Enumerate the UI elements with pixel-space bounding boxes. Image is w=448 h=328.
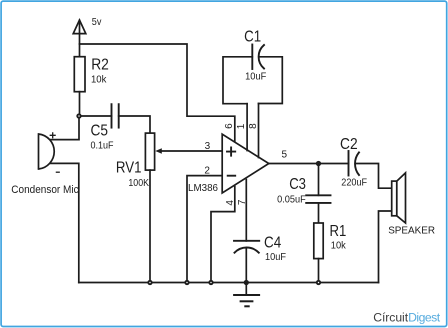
svg-text:5: 5 <box>282 150 288 161</box>
speaker LS1 <box>392 173 406 223</box>
pin 7 wire <box>245 180 247 241</box>
svg-text:10k: 10k <box>331 240 347 252</box>
junction dot pin2/rail <box>185 281 188 284</box>
svg-text:5v: 5v <box>92 17 102 28</box>
mic plus sign <box>50 133 55 138</box>
wire pin 2 <box>187 176 222 283</box>
junction dot C4/rail <box>245 281 248 284</box>
svg-text:Condensor Mic: Condensor Mic <box>11 184 79 196</box>
pin 8 wire <box>258 104 260 158</box>
svg-text:10k: 10k <box>91 73 107 85</box>
RV1 wiper arrow <box>155 148 162 153</box>
node A junction dot <box>77 114 80 117</box>
ground rail wire <box>79 282 379 284</box>
wire mic plus to node A <box>51 116 79 140</box>
ground symbol <box>234 283 259 307</box>
svg-text:LM386: LM386 <box>188 183 218 194</box>
pin 4 wire <box>211 187 235 283</box>
resistor R2 <box>74 57 85 92</box>
svg-text:10uF: 10uF <box>265 251 286 263</box>
svg-text:1: 1 <box>236 123 247 129</box>
svg-text:R2: R2 <box>91 57 109 74</box>
svg-text:0.1uF: 0.1uF <box>91 139 114 151</box>
wire C1 right to pin 8 <box>259 57 283 104</box>
svg-text:C4: C4 <box>264 234 281 251</box>
svg-text:8: 8 <box>248 123 259 129</box>
wire R1 to rail <box>318 259 320 283</box>
capacitor C2 <box>349 151 360 176</box>
svg-text:CírcuitDigest: CírcuitDigest <box>373 311 441 325</box>
svg-text:2: 2 <box>204 165 210 176</box>
wire C4 to rail <box>245 248 247 283</box>
wire R2 to node A <box>79 92 81 116</box>
capacitor C1 <box>252 45 264 70</box>
CircuitDigest logo <box>373 311 441 325</box>
svg-text:4: 4 <box>225 200 236 206</box>
capacitor C3 <box>306 195 330 203</box>
svg-text:220uF: 220uF <box>341 177 367 189</box>
svg-text:3: 3 <box>205 141 211 152</box>
svg-text:C5: C5 <box>91 123 109 140</box>
potentiometer RV1 <box>145 133 154 170</box>
svg-text:7: 7 <box>237 199 248 205</box>
resistor R1 <box>314 223 323 259</box>
svg-text:C3: C3 <box>289 176 306 193</box>
wire mic minus to ground rail <box>51 163 79 282</box>
junction dot R1/rail <box>317 281 320 284</box>
pin 1 wire <box>246 104 248 151</box>
junction dot pin4/rail <box>209 281 212 284</box>
svg-text:C1: C1 <box>244 28 261 45</box>
wire C3 to R1 <box>318 203 320 223</box>
wire node B to C3 <box>318 164 320 196</box>
wire 5v to pin 6 <box>80 44 235 143</box>
svg-text:RV1: RV1 <box>116 159 142 176</box>
wire C5 to RV1 top <box>119 116 150 133</box>
wire C1 left to pin 1 <box>223 57 252 104</box>
node B junction dot <box>317 162 320 165</box>
wire RV1 bottom to rail <box>149 170 151 282</box>
op-amp minus input mark <box>228 175 236 177</box>
svg-text:C2: C2 <box>340 136 358 153</box>
svg-text:R1: R1 <box>330 223 347 240</box>
op-amp plus input mark <box>227 148 235 156</box>
svg-text:6: 6 <box>224 123 235 129</box>
op-amp U1 LM386 <box>222 134 269 193</box>
wire wiper to pin 3 <box>162 150 223 152</box>
mic minus sign <box>56 171 59 173</box>
svg-text:100K: 100K <box>128 177 149 189</box>
wire node A to C5 <box>79 115 112 117</box>
svg-text:SPEAKER: SPEAKER <box>388 226 435 237</box>
capacitor C4 <box>234 241 259 253</box>
condenser mic <box>39 134 55 169</box>
svg-text:0.05uF: 0.05uF <box>277 193 306 205</box>
wire C2 to speaker top <box>356 164 392 189</box>
wire speaker bottom to rail <box>379 211 392 283</box>
power 5v symbol <box>73 20 86 57</box>
wire pin 5 output <box>269 163 349 165</box>
capacitor C5 <box>112 104 119 127</box>
svg-text:10uF: 10uF <box>245 71 266 83</box>
junction dot RV1/rail <box>148 281 151 284</box>
